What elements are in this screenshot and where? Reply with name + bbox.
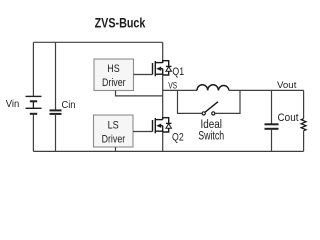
svg-text:Driver: Driver xyxy=(102,133,126,145)
wire HS return xyxy=(116,91,163,96)
svg-text:Cout: Cout xyxy=(278,112,299,124)
svg-text:Vout: Vout xyxy=(277,80,297,90)
wire Cout rail bottom xyxy=(271,129,273,152)
transistor Q1 xyxy=(153,61,172,77)
wire left rail bottom xyxy=(32,114,34,152)
wire Q2 source xyxy=(162,132,164,151)
svg-text:Q2: Q2 xyxy=(172,132,184,144)
driver U2 LS xyxy=(94,115,134,147)
svg-text:ZVS-Buck: ZVS-Buck xyxy=(95,15,146,30)
wire LS gate xyxy=(133,131,153,133)
resistor R load xyxy=(301,119,306,131)
wire switch right branch xyxy=(215,90,240,113)
wire Q1 drain xyxy=(162,42,164,63)
svg-text:Cin: Cin xyxy=(62,99,76,111)
inductor L1 xyxy=(197,85,229,91)
wire LS return xyxy=(115,147,117,151)
wire Cout rail top xyxy=(271,90,273,124)
wire HS gate xyxy=(134,74,153,76)
transistor Q2 xyxy=(153,118,172,134)
switch S1 ideal switch xyxy=(202,102,218,115)
svg-text:HS: HS xyxy=(107,63,119,75)
wire load rail bottom xyxy=(303,131,305,152)
wire left rail top xyxy=(32,42,34,96)
wire top bus xyxy=(33,41,162,43)
capacitor Cin xyxy=(50,110,62,114)
svg-text:Q1: Q1 xyxy=(172,66,184,78)
svg-text:Switch: Switch xyxy=(198,131,224,143)
wire Cin rail top xyxy=(55,42,57,110)
svg-text:Ideal: Ideal xyxy=(200,119,222,131)
svg-text:LS: LS xyxy=(108,119,119,131)
svg-text:Driver: Driver xyxy=(102,77,126,89)
wire load rail top xyxy=(303,90,305,118)
wire Cin rail bottom xyxy=(55,114,57,151)
wire switch left branch xyxy=(178,90,202,113)
wire VS rail xyxy=(162,75,164,118)
wire VS to inductor xyxy=(163,89,197,91)
battery Vin xyxy=(26,96,42,113)
wire bottom bus xyxy=(33,150,303,152)
label Ideal Switch xyxy=(198,119,224,143)
capacitor Cout xyxy=(265,124,279,129)
svg-text:VS: VS xyxy=(168,80,177,90)
svg-text:Vin: Vin xyxy=(6,99,19,110)
driver U1 HS xyxy=(94,59,134,91)
wire inductor to Vout corner xyxy=(229,89,304,91)
